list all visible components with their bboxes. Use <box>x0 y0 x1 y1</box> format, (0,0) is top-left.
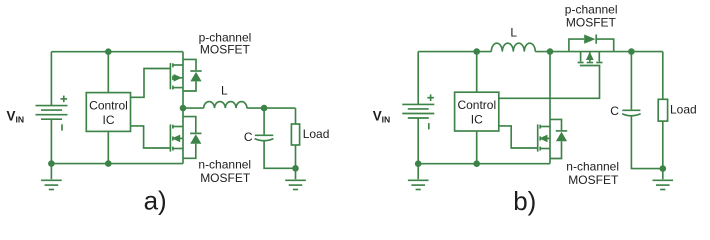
ground: output ground (b) <box>653 169 674 190</box>
transistor Q2 channel segments <box>172 125 174 151</box>
wire: IC top pin (b) <box>476 52 478 93</box>
transistor Q2 source lead <box>174 148 184 150</box>
inductor L1 (a) <box>204 102 247 109</box>
capacitor C2 branch wire (b) <box>630 52 632 110</box>
resistor Load (b) <box>658 99 667 121</box>
transistor Q1 channel segments <box>172 63 174 89</box>
wire: IC lower right pin to n-channel gate (a) <box>131 126 170 148</box>
svg-text:MOSFET: MOSFET <box>200 42 251 56</box>
transistor Q1 body lead with arrow <box>174 77 184 79</box>
resistor Load (a) <box>291 124 299 145</box>
wire: load to output ground node (a) <box>295 145 297 168</box>
battery plus sign (a) <box>61 96 68 103</box>
wire: battery to bottom rail (b) <box>417 118 419 164</box>
svg-text:n-channel: n-channel <box>566 160 619 174</box>
wire: inductor to output corner (a) <box>247 107 296 109</box>
node: junction below Control IC (b) <box>473 160 480 167</box>
wire: Q3 gate down and left to IC (b) <box>499 66 600 99</box>
svg-text:MOSFET: MOSFET <box>200 171 251 185</box>
inductor L2 (b) <box>491 43 535 51</box>
node: output node (b) <box>628 48 635 55</box>
svg-text:n-channel: n-channel <box>198 158 251 172</box>
capacitor C1 (a) <box>255 135 274 140</box>
svg-text:Load: Load <box>303 127 330 141</box>
node: junction below Control IC (a) <box>105 160 112 167</box>
op-amp/control IC box U1 (a) <box>86 93 130 132</box>
transistor Q2 n-channel MOSFET (a): gate bar <box>169 124 171 151</box>
wire: IC bottom pin (a) <box>107 131 109 163</box>
wire: Q2 bus from switch node to bottom rail (a) <box>182 108 184 164</box>
transistor Q4 source lead <box>541 148 550 150</box>
wire: IC top pin (a) <box>107 52 109 93</box>
battery B1 (a) <box>36 106 68 120</box>
node: junction below battery (b) <box>415 160 422 167</box>
battery minus tick (a) <box>61 124 63 130</box>
wire: capacitor bottom to output ground node (a) <box>264 141 295 169</box>
wire: bottom rail (a) <box>51 163 183 165</box>
svg-text:L: L <box>510 26 517 40</box>
svg-text:Control: Control <box>457 98 496 112</box>
battery plus sign (b) <box>427 94 434 101</box>
battery B2 (b) <box>402 104 434 118</box>
transistor Q4 body lead with arrow <box>541 137 550 139</box>
wire: output corner down to load (a) <box>295 108 297 124</box>
transistor Q2 body lead with arrow <box>174 137 184 139</box>
wire: left vertical from top rail to battery (a) <box>50 52 52 106</box>
transistor Q1 drain lead <box>174 64 184 66</box>
node: junction below battery (a) <box>48 160 55 167</box>
svg-text:VIN: VIN <box>373 109 391 125</box>
wire: load to output ground node (b) <box>662 121 664 169</box>
node: output ground node (b) <box>660 165 667 172</box>
op-amp/control IC box U2 (b) <box>455 92 499 131</box>
transistor Q3 body lead with arrow <box>589 52 591 62</box>
svg-text:b): b) <box>513 186 536 216</box>
transistor Q3 p-channel MOSFET (b): channel segments <box>578 62 603 64</box>
ground: below battery (b) <box>408 164 429 190</box>
wire: Q4 bus from switch node to bottom rail (b) <box>549 52 551 164</box>
node: switch node between MOSFETs (a) <box>180 105 187 112</box>
wire: switch node to inductor (a) <box>183 107 204 109</box>
svg-text:p-channel: p-channel <box>565 3 618 17</box>
node: junction on top rail above Control IC (a) <box>105 48 112 55</box>
node: output ground node (a) <box>292 165 299 172</box>
ground: below battery (a) <box>41 164 62 190</box>
wire: output corner down to load (b) <box>662 52 664 100</box>
node: output node after inductor (a) <box>261 105 268 112</box>
transistor Q1 p-channel MOSFET (a): gate bar <box>169 63 171 89</box>
svg-text:C: C <box>610 104 619 118</box>
wire: IC upper right pin to p-channel gate (a) <box>131 69 170 98</box>
transistor Q2 drain lead <box>174 126 184 128</box>
capacitor C1 branch wire (a) <box>263 108 265 134</box>
svg-text:IC: IC <box>103 113 115 127</box>
transistor Q3 drain lead <box>580 52 582 62</box>
node: junction on top rail above Control IC (b) <box>473 48 480 55</box>
transistor Q3 gate bar <box>580 65 601 67</box>
wire: IC bottom pin (b) <box>476 131 478 164</box>
diode D1 body diode of Q1 (a) <box>183 59 202 91</box>
svg-text:C: C <box>244 130 253 144</box>
wire: capacitor bottom to output ground node (b) <box>631 116 662 169</box>
diode D3 body diode of Q3 (b) <box>569 35 614 52</box>
svg-text:VIN: VIN <box>7 108 25 124</box>
svg-text:MOSFET: MOSFET <box>568 173 619 187</box>
transistor Q3 source lead <box>598 52 600 62</box>
svg-text:a): a) <box>144 186 167 216</box>
battery minus tick (b) <box>428 123 430 129</box>
wire: battery to bottom rail (a) <box>50 119 52 163</box>
transistor Q1 source lead <box>174 87 184 89</box>
wire: left vertical from top rail to battery (b) <box>417 52 419 105</box>
svg-text:IC: IC <box>471 112 483 126</box>
wire: Q1 bus from top rail to switch node (a) <box>182 52 184 108</box>
wire: top rail right segment (b) <box>535 51 663 53</box>
svg-text:Control: Control <box>89 98 128 112</box>
wire: IC lower right pin to n-channel gate (b) <box>499 126 537 148</box>
svg-text:MOSFET: MOSFET <box>566 15 617 29</box>
transistor Q4 drain lead <box>541 126 550 128</box>
capacitor C2 (b) <box>622 110 640 116</box>
wire: bottom rail (b) <box>418 163 550 165</box>
svg-text:Load: Load <box>670 102 697 116</box>
transistor Q4 channel segments <box>539 125 541 151</box>
diode D2 body diode of Q2 (a) <box>183 117 202 159</box>
diode D4 body diode of Q4 (b) <box>550 119 567 158</box>
wire: top rail left segment (b) <box>418 51 491 53</box>
transistor Q4 n-channel MOSFET (b): gate bar <box>537 124 539 151</box>
svg-text:L: L <box>221 83 228 97</box>
ground: output ground (a) <box>285 168 306 189</box>
wire: top rail (a) <box>51 51 183 53</box>
node: switch node after inductor (b) <box>547 48 554 55</box>
